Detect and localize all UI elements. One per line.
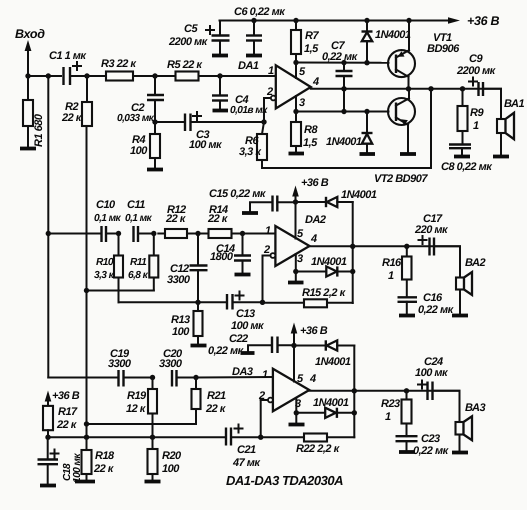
wire bus to ch3 <box>48 377 118 379</box>
wire to pin1 DA2 <box>243 233 276 235</box>
ground C15 <box>242 211 258 215</box>
svg-text:1: 1 <box>385 411 391 423</box>
node R5/C4 <box>217 73 222 78</box>
node R9 output <box>460 86 465 91</box>
capacitor C8 <box>441 145 493 174</box>
svg-text:4: 4 <box>309 373 316 385</box>
svg-text:+36 В: +36 В <box>300 325 328 337</box>
ground R13 <box>191 344 207 348</box>
node C6 rail <box>251 18 256 23</box>
supply +36V DA3 <box>291 323 328 382</box>
input arrow <box>25 40 32 76</box>
speaker BA1 <box>497 98 524 155</box>
wire C17 to BA2 <box>434 246 460 277</box>
svg-text:4: 4 <box>312 76 319 88</box>
wire diode to output ch3 <box>353 346 355 438</box>
svg-text:R7: R7 <box>305 30 319 42</box>
ground R20 <box>145 480 161 484</box>
capacitor C19 <box>108 348 153 387</box>
svg-text:1: 1 <box>473 120 479 132</box>
pin2 circle DA3 <box>261 398 273 438</box>
wire output line ch2 <box>310 245 461 247</box>
svg-text:3300: 3300 <box>159 358 183 370</box>
capacitor C3 <box>155 112 264 151</box>
svg-text:100 мк: 100 мк <box>231 320 265 332</box>
capacitor C14 <box>210 234 251 274</box>
capacitor C10 <box>94 199 122 242</box>
svg-text:+36 В: +36 В <box>467 14 499 28</box>
resistor R18 <box>82 437 116 480</box>
svg-text:6,8 к: 6,8 к <box>128 270 149 281</box>
wire pin5 line to VT1 base <box>296 62 389 64</box>
ground C5 <box>212 54 228 58</box>
svg-text:1N4001: 1N4001 <box>315 356 351 368</box>
ground VT2 emitter <box>400 152 416 156</box>
capacitor C1 <box>49 50 87 85</box>
svg-text:+36 В: +36 В <box>52 390 80 402</box>
svg-text:22 к: 22 к <box>93 463 115 475</box>
capacitor C7 <box>322 40 359 112</box>
wire C24 to BA3 <box>433 391 460 422</box>
svg-text:0,1 мк: 0,1 мк <box>125 213 153 224</box>
diode VD3 1N4001 <box>296 189 377 207</box>
svg-text:R13: R13 <box>171 314 190 326</box>
svg-text:R21: R21 <box>207 390 226 402</box>
ground R1 <box>20 147 36 151</box>
svg-text:3,3 к: 3,3 к <box>239 146 262 158</box>
node VT output <box>406 86 411 91</box>
resistor R17 <box>43 406 78 440</box>
wire line1 R21 to R2line <box>84 421 196 426</box>
resistor R12 <box>158 204 198 238</box>
wire line2 <box>48 436 226 438</box>
diode VD1 1N4001 <box>362 21 411 66</box>
ground pin3 ch2 <box>288 281 304 285</box>
wire output line ch1 <box>311 88 501 90</box>
svg-text:1N4001: 1N4001 <box>326 136 362 148</box>
svg-text:BD906: BD906 <box>427 43 460 55</box>
svg-text:22 к: 22 к <box>207 213 229 225</box>
wire to pin1 DA1 <box>220 75 276 77</box>
node C7 pin3 <box>341 109 346 114</box>
svg-text:C21: C21 <box>237 444 256 456</box>
svg-text:1: 1 <box>388 270 394 282</box>
resistor R23 <box>381 391 412 436</box>
svg-text:1,5: 1,5 <box>303 137 318 149</box>
svg-text:3: 3 <box>299 97 305 109</box>
resistor R21 <box>192 378 227 425</box>
resistor R8 <box>291 112 318 153</box>
svg-text:R22 2,2 к: R22 2,2 к <box>296 443 341 455</box>
capacitor C9 <box>456 53 497 96</box>
node R11 tap <box>151 231 156 236</box>
svg-text:C23: C23 <box>421 433 440 445</box>
svg-text:R9: R9 <box>470 107 484 119</box>
node pin2/C13/R15 <box>260 300 265 305</box>
supply +36V bottom left <box>45 390 80 406</box>
svg-text:3300: 3300 <box>108 358 132 370</box>
svg-text:5: 5 <box>297 373 304 385</box>
svg-text:22 к: 22 к <box>56 419 78 431</box>
caption DA1-DA3 TDA2030A <box>226 473 343 488</box>
svg-text:2: 2 <box>263 244 270 256</box>
node Вход (input) <box>15 27 45 41</box>
resistor R9 <box>458 89 485 145</box>
resistor R11 <box>128 234 158 291</box>
ground C14 <box>235 273 251 277</box>
node pin5 junction <box>293 60 298 78</box>
resistor R2 <box>61 76 92 126</box>
svg-text:0,01в мк: 0,01в мк <box>230 105 268 116</box>
capacitor C17 <box>414 213 449 256</box>
svg-text:0,033 мк: 0,033 мк <box>117 113 155 124</box>
wire feedback bottom ch1 <box>262 89 431 168</box>
wire pin3 line ch1 <box>293 96 388 114</box>
svg-text:VT2 BD907: VT2 BD907 <box>374 173 428 185</box>
wire bus vertical <box>47 76 49 378</box>
resistor R7 <box>291 21 319 63</box>
resistor R22 <box>261 434 355 456</box>
capacitor C12 <box>167 234 208 303</box>
node C3/R6/pin2 <box>261 119 266 124</box>
svg-text:Вход: Вход <box>15 27 45 41</box>
wire pin3 ch2 <box>293 254 298 281</box>
node R19 tap <box>150 375 155 380</box>
transistor VT2 BD907 <box>374 89 428 185</box>
svg-text:1: 1 <box>262 369 268 381</box>
wire line B feedback ch2 <box>119 301 228 303</box>
svg-text:C8 0,22 мк: C8 0,22 мк <box>441 161 493 173</box>
svg-text:ВА1: ВА1 <box>504 98 524 110</box>
svg-text:DA3: DA3 <box>232 366 253 378</box>
svg-text:100 мк: 100 мк <box>189 139 223 151</box>
capacitor C16 <box>398 292 455 316</box>
node after C1 <box>84 73 89 78</box>
ground pin3 ch3 <box>289 423 305 427</box>
node diode output ch3 <box>352 388 357 393</box>
resistor R6 <box>239 122 267 168</box>
svg-text:R18: R18 <box>95 450 115 462</box>
node C12 line B <box>195 300 200 305</box>
node R3/C2 <box>152 73 157 78</box>
ground C16 <box>399 314 415 318</box>
capacitor C18 <box>38 437 84 484</box>
capacitor C21 <box>226 425 261 470</box>
svg-text:100: 100 <box>172 326 190 338</box>
ground BA3 <box>452 451 468 455</box>
svg-text:1N4001: 1N4001 <box>341 189 377 201</box>
svg-text:R16: R16 <box>382 257 402 269</box>
ground R8 <box>289 152 305 156</box>
resistor R5 <box>155 59 220 81</box>
ground BA1 <box>493 155 509 159</box>
ground VD2 <box>360 152 376 156</box>
svg-text:22 к: 22 к <box>205 403 227 415</box>
svg-text:R19: R19 <box>127 390 147 402</box>
svg-text:R11: R11 <box>130 257 147 268</box>
node feedback output <box>428 86 433 91</box>
svg-text:12 к: 12 к <box>126 403 147 415</box>
node C2/R4/C3 <box>152 119 157 124</box>
wire pin3 ch3 <box>294 398 299 423</box>
svg-text:1: 1 <box>265 225 271 237</box>
ground C4 <box>213 109 229 113</box>
svg-text:1N4001: 1N4001 <box>311 256 347 268</box>
diode VD2 1N4001 <box>326 109 373 153</box>
resistor R3 <box>87 58 155 81</box>
ground C18 <box>40 484 56 488</box>
svg-text:100: 100 <box>130 145 148 157</box>
node diode line output ch2 <box>350 244 355 249</box>
ground C23 <box>399 450 415 454</box>
svg-text:0,22 мк: 0,22 мк <box>208 345 245 357</box>
svg-text:C13: C13 <box>236 308 255 320</box>
svg-text:100 мк: 100 мк <box>415 367 449 379</box>
svg-text:5: 5 <box>297 228 304 240</box>
svg-text:2200 мк: 2200 мк <box>168 36 209 48</box>
pin 2 circle DA1 <box>264 96 276 122</box>
svg-text:C1 1 мк: C1 1 мк <box>49 50 87 62</box>
svg-text:C11: C11 <box>127 199 145 211</box>
wire output line ch3 <box>309 390 459 392</box>
wire C9 to BA1 <box>483 89 501 119</box>
op-amp DA1 <box>238 60 319 109</box>
svg-text:5: 5 <box>299 66 306 78</box>
svg-text:C15 0,22 мк: C15 0,22 мк <box>209 188 267 200</box>
svg-text:1N4001: 1N4001 <box>375 29 411 41</box>
svg-text:R1 680: R1 680 <box>33 113 45 147</box>
node R23 output ch3 <box>404 388 409 393</box>
svg-text:1N4001: 1N4001 <box>313 397 349 409</box>
node input junction <box>25 73 30 78</box>
svg-text:R10: R10 <box>96 257 114 268</box>
svg-text:+36 В: +36 В <box>301 177 329 189</box>
resistor R14 <box>198 204 243 238</box>
capacitor C23 <box>396 433 450 457</box>
resistor R10 <box>94 234 123 303</box>
node bus ch2 tap <box>46 231 102 236</box>
pin2 circle DA2 <box>263 253 276 302</box>
svg-text:3: 3 <box>297 253 303 265</box>
svg-text:C22: C22 <box>229 333 248 345</box>
resistor R16 <box>382 246 412 297</box>
speaker BA2 <box>456 257 485 314</box>
svg-text:0,22 мк: 0,22 мк <box>418 304 455 316</box>
svg-text:3,3 к: 3,3 к <box>94 270 115 281</box>
node bus tap <box>46 73 51 78</box>
svg-text:R23: R23 <box>381 398 400 410</box>
capacitor C5 <box>168 21 230 55</box>
diode VD5 1N4001 <box>294 340 354 368</box>
resistor R4 <box>130 122 160 168</box>
svg-text:0,1 мк: 0,1 мк <box>94 213 122 224</box>
svg-text:C16: C16 <box>423 292 443 304</box>
node R10 tap <box>116 231 121 236</box>
svg-text:3300: 3300 <box>167 274 191 286</box>
node C14 tap <box>240 231 245 236</box>
wire input to C1 <box>28 75 61 77</box>
svg-text:22 к: 22 к <box>61 112 83 124</box>
svg-text:R3 22 к: R3 22 к <box>101 58 137 70</box>
svg-text:22 к: 22 к <box>165 213 187 225</box>
node R21 tap <box>193 375 198 380</box>
diode VD6 1N4001 <box>296 397 357 418</box>
svg-text:2200 мк: 2200 мк <box>456 65 497 77</box>
wire line A R11 to R2 line <box>84 288 154 293</box>
svg-text:R8: R8 <box>304 124 318 136</box>
op-amp DA3 <box>232 366 316 411</box>
wire R2 bottom long vertical <box>86 126 88 437</box>
node C7 output <box>341 86 346 91</box>
ground R18 <box>75 480 95 484</box>
capacitor C15 <box>209 188 296 212</box>
svg-text:R5 22 к: R5 22 к <box>167 59 203 71</box>
svg-text:1,5: 1,5 <box>304 43 319 55</box>
node R2line line2 <box>84 435 89 440</box>
svg-text:1: 1 <box>268 65 274 77</box>
power rail +36V <box>220 14 500 28</box>
node R19 line2 <box>150 435 155 440</box>
node R7 rail <box>293 18 298 23</box>
supply +36V DA2 <box>292 177 329 239</box>
svg-text:C9: C9 <box>469 53 483 65</box>
capacitor C22 <box>208 333 294 357</box>
svg-text:1800: 1800 <box>210 251 234 263</box>
wire diode to output ch2 <box>352 202 354 303</box>
node rail diode1 <box>364 18 369 23</box>
capacitor C24 <box>415 356 449 400</box>
resistor R20 <box>148 437 183 480</box>
ground R4 <box>147 168 163 172</box>
speaker BA3 <box>456 402 486 451</box>
svg-text:DA1-DA3 TDA2030A: DA1-DA3 TDA2030A <box>226 473 343 488</box>
op-amp DA2 <box>263 214 326 266</box>
node R16 output ch2 <box>404 244 409 249</box>
capacitor C11 <box>125 199 154 242</box>
ground C8 <box>454 155 470 159</box>
svg-text:C5: C5 <box>184 23 198 35</box>
diode VD4 1N4001 <box>296 256 356 277</box>
resistor R19 <box>126 378 157 438</box>
ground BA2 <box>452 314 468 318</box>
svg-text:R17: R17 <box>58 406 78 418</box>
svg-text:0,22 мк: 0,22 мк <box>322 51 359 63</box>
svg-text:47 мк: 47 мк <box>232 457 261 469</box>
node pin2 C21 R22 <box>258 435 263 440</box>
svg-text:100: 100 <box>162 463 180 475</box>
capacitor C4 <box>212 76 268 116</box>
capacitor C6 <box>234 6 286 54</box>
svg-text:0,22 мк: 0,22 мк <box>413 445 450 457</box>
svg-text:DA2: DA2 <box>305 214 326 226</box>
wire to pin1 DA3 <box>196 376 273 379</box>
svg-text:4: 4 <box>310 233 317 245</box>
svg-text:ВА2: ВА2 <box>465 257 485 269</box>
svg-text:DA1: DA1 <box>238 60 259 72</box>
ground C6 <box>246 54 262 58</box>
ground C22 <box>241 351 255 355</box>
capacitor C2 <box>117 76 164 124</box>
svg-text:220 мк: 220 мк <box>414 224 449 236</box>
svg-text:R15 2,2 к: R15 2,2 к <box>302 287 347 299</box>
resistor R13 <box>171 302 203 344</box>
transistor VT1 BD906 <box>388 18 460 89</box>
capacitor C13 <box>227 292 265 333</box>
node C12 tap <box>195 231 200 236</box>
resistor R1 <box>23 76 45 147</box>
svg-text:ВА3: ВА3 <box>465 402 485 414</box>
svg-text:C6 0,22 мк: C6 0,22 мк <box>234 6 286 18</box>
svg-text:R20: R20 <box>162 450 182 462</box>
capacitor C20 <box>159 348 196 387</box>
resistor R15 <box>263 287 353 307</box>
svg-text:C10: C10 <box>96 199 116 211</box>
